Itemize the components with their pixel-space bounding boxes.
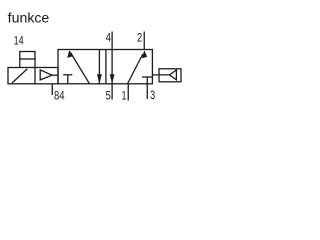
right square: flow arrow diagonal 1-2 (up arrowhead) <box>128 50 148 84</box>
right square: vertical flow line 4-5 with down arrowhead <box>110 50 115 85</box>
right pilot box <box>159 69 181 82</box>
pilot 14 box <box>20 52 35 60</box>
svg-text:funkce: funkce <box>8 10 50 26</box>
svg-text:84: 84 <box>54 88 65 102</box>
valve body outline <box>58 50 152 84</box>
svg-text:14: 14 <box>14 34 24 48</box>
left square: blocked port T symbol <box>63 75 72 84</box>
port 5 line <box>111 84 113 100</box>
svg-text:4: 4 <box>106 31 111 45</box>
port 1 line <box>127 84 129 101</box>
right square: blocked port 3 T symbol <box>142 77 152 84</box>
left pilot box <box>8 68 58 84</box>
pilot 14 left leg <box>19 59 21 68</box>
port 4 line <box>111 32 113 50</box>
left pilot apex line <box>52 74 58 76</box>
right pilot triangle <box>170 70 177 80</box>
left pilot triangle <box>40 70 52 80</box>
left square: vertical flow line with down arrowhead <box>97 50 102 85</box>
svg-text:5: 5 <box>106 88 111 102</box>
port 3 line <box>146 84 148 99</box>
port 2 line <box>143 32 145 50</box>
pilot 14 right leg and pilot divider <box>34 59 36 84</box>
svg-text:3: 3 <box>150 88 155 102</box>
position divider <box>105 50 107 84</box>
svg-text:1: 1 <box>122 88 127 102</box>
right pilot connecting line <box>152 74 169 76</box>
left pilot slash <box>12 69 27 83</box>
left square: flow arrow diagonal (up arrowhead) <box>67 50 89 84</box>
port 84 line <box>51 84 53 95</box>
svg-text:2: 2 <box>137 31 142 45</box>
